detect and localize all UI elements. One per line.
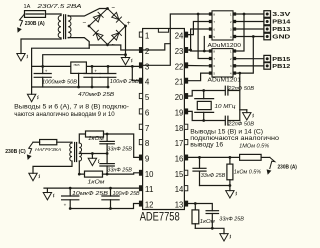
svg-text:7: 7	[145, 124, 150, 133]
svg-text:2: 2	[230, 20, 232, 24]
svg-text:3.3V: 3.3V	[272, 12, 290, 18]
svg-text:23: 23	[175, 47, 184, 56]
svg-text:PB13: PB13	[272, 27, 291, 33]
svg-text:5: 5	[213, 35, 215, 39]
svg-text:7805: 7805	[73, 63, 80, 67]
svg-text:2: 2	[145, 47, 150, 56]
svg-text:+: +	[64, 202, 67, 207]
svg-text:15: 15	[175, 170, 184, 179]
svg-text:20: 20	[175, 93, 184, 102]
svg-text:5: 5	[213, 72, 215, 76]
svg-text:10мкФ 25В: 10мкФ 25В	[72, 191, 109, 197]
svg-text:19: 19	[175, 108, 184, 117]
svg-text:100нФ 25В: 100нФ 25В	[110, 79, 139, 85]
svg-text:230В (А): 230В (А)	[278, 165, 298, 171]
svg-text:1кОм: 1кОм	[88, 180, 106, 186]
svg-text:24: 24	[175, 32, 184, 41]
svg-text:8: 8	[213, 49, 215, 53]
svg-text:16: 16	[175, 155, 184, 164]
svg-text:1МОм 0.5%: 1МОм 0.5%	[239, 143, 269, 149]
svg-text:выводу 16: выводу 16	[190, 141, 223, 148]
svg-text:21: 21	[175, 78, 184, 87]
svg-text:~: ~	[112, 6, 116, 12]
svg-text:1: 1	[145, 32, 150, 41]
svg-text:33нФ 25В: 33нФ 25В	[107, 168, 132, 174]
svg-text:6: 6	[145, 108, 150, 117]
svg-text:230/7.5 2ВА: 230/7.5 2ВА	[36, 4, 82, 10]
svg-text:470мкФ 25В: 470мкФ 25В	[78, 92, 114, 98]
svg-text:1кОм 0.5%: 1кОм 0.5%	[234, 169, 262, 175]
svg-text:100нФ 25В: 100нФ 25В	[113, 191, 140, 197]
svg-text:4: 4	[230, 72, 232, 76]
svg-text:33нФ 25В: 33нФ 25В	[219, 217, 244, 223]
svg-text:12: 12	[145, 201, 154, 210]
svg-text:3: 3	[230, 27, 232, 31]
svg-text:2: 2	[230, 57, 232, 61]
svg-text:13: 13	[175, 201, 184, 210]
svg-text:3: 3	[145, 62, 150, 71]
svg-text:230В (А): 230В (А)	[25, 21, 45, 27]
svg-text:PB14: PB14	[272, 20, 291, 26]
svg-text:1кОм: 1кОм	[200, 219, 216, 225]
svg-text:+: +	[127, 20, 131, 27]
svg-text:6: 6	[213, 64, 215, 68]
svg-text:17: 17	[175, 139, 184, 148]
svg-text:1000мкФ 50В: 1000мкФ 50В	[42, 79, 77, 85]
svg-text:+: +	[45, 69, 48, 74]
svg-text:5: 5	[145, 93, 150, 102]
svg-text:−: −	[83, 20, 87, 27]
svg-text:1А: 1А	[24, 4, 31, 10]
svg-text:4: 4	[145, 78, 150, 87]
svg-text:1: 1	[230, 12, 232, 16]
svg-text:8: 8	[213, 12, 215, 16]
svg-text:6: 6	[213, 27, 215, 31]
svg-text:22пФ 50В: 22пФ 50В	[227, 122, 254, 128]
svg-text:1: 1	[230, 49, 232, 53]
svg-text:PB15: PB15	[272, 57, 291, 63]
svg-text:3: 3	[230, 64, 232, 68]
svg-text:22: 22	[175, 62, 184, 71]
svg-text:Выводы 5 и 6 (А), 7 и 8 (В) по: Выводы 5 и 6 (А), 7 и 8 (В) подклю-	[14, 104, 129, 111]
svg-text:11: 11	[145, 185, 154, 194]
svg-text:14: 14	[175, 185, 184, 194]
svg-text:ADE7758: ADE7758	[140, 210, 180, 224]
svg-text:7: 7	[213, 57, 215, 61]
svg-text:ADuM1201: ADuM1201	[208, 78, 242, 84]
svg-text:230В (С): 230В (С)	[5, 149, 26, 155]
svg-text:PB12: PB12	[272, 64, 290, 70]
svg-text:10: 10	[145, 170, 154, 179]
svg-text:10 МГц: 10 МГц	[215, 104, 237, 110]
svg-text:33нФ 25В: 33нФ 25В	[107, 146, 132, 152]
svg-text:НАГРУЗКА: НАГРУЗКА	[35, 147, 61, 153]
svg-text:9: 9	[145, 155, 150, 164]
svg-text:33нФ 25В: 33нФ 25В	[201, 173, 226, 179]
svg-text:GND: GND	[272, 35, 290, 41]
svg-text:7: 7	[213, 20, 215, 24]
svg-text:чаются аналогично выводам 9 и: чаются аналогично выводам 9 и 10	[14, 111, 115, 118]
svg-text:+: +	[94, 69, 97, 74]
svg-text:22пФ 50В: 22пФ 50В	[227, 86, 254, 92]
svg-text:4: 4	[230, 35, 232, 39]
svg-text:18: 18	[175, 124, 184, 133]
svg-text:8: 8	[145, 139, 150, 148]
